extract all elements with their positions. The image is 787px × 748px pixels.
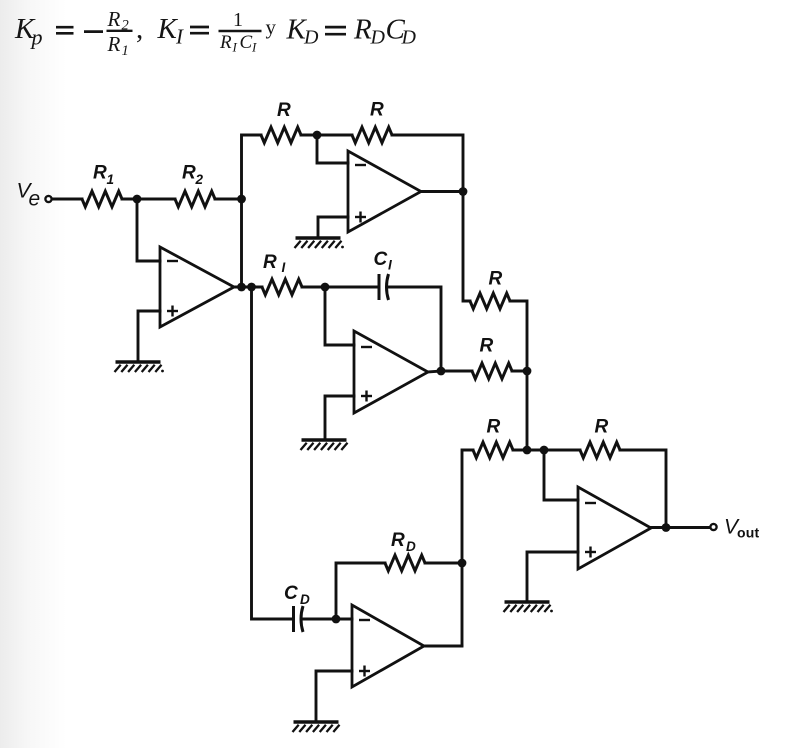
wire CI to op3 output rail	[388, 287, 441, 371]
svg-text:R: R	[107, 32, 121, 56]
op-amp U2 (unity inverter)	[348, 151, 421, 232]
wire RI to CI	[302, 286, 379, 289]
node Ve input terminal	[17, 180, 52, 211]
wire R1 to R2	[122, 198, 175, 201]
resistor RD	[385, 530, 425, 571]
svg-text:R: R	[353, 14, 372, 46]
svg-text:2: 2	[195, 172, 204, 187]
wire op1 output	[234, 286, 262, 289]
node junction after RI	[321, 283, 330, 292]
ground op3	[301, 440, 348, 450]
capacitor CI	[374, 249, 393, 300]
wire R1 node down to op1 inverting input	[137, 199, 160, 261]
resistor R (P feedback)	[352, 100, 392, 143]
wire vertical rail x462 (D output up to summing)	[462, 450, 473, 645]
svg-text:e: e	[29, 188, 41, 211]
svg-text:R: R	[182, 163, 196, 184]
formula Kp = -R2/R1	[14, 7, 143, 59]
svg-text:R: R	[480, 336, 494, 357]
resistor R (P to summing)	[470, 269, 510, 309]
svg-text:1: 1	[107, 172, 115, 187]
op-amp U3 (integrator)	[354, 331, 428, 413]
svg-text:R: R	[277, 100, 291, 121]
wire R to rail	[512, 370, 527, 373]
wire op5 non-inverting input to ground	[527, 552, 578, 600]
svg-text:C: C	[284, 583, 298, 604]
svg-text:1: 1	[122, 43, 129, 59]
svg-text:C: C	[374, 249, 388, 270]
svg-text:C: C	[240, 32, 253, 53]
resistor R (P input)	[261, 100, 301, 143]
ground op5	[504, 602, 553, 612]
wire summing rail right top	[510, 301, 527, 450]
formula KD = RD CD	[286, 14, 417, 49]
node summing junction rail	[523, 446, 532, 455]
svg-text:D: D	[300, 592, 310, 607]
wire summing node down to op5 inverting input	[544, 450, 578, 500]
node op2 output junction	[459, 187, 468, 196]
node top junction	[313, 131, 322, 140]
resistor R (summing feedback)	[580, 417, 620, 458]
svg-text:,: ,	[136, 13, 143, 45]
wire vertical rail x241 output node up to top branch	[242, 135, 262, 287]
svg-text:R: R	[489, 269, 503, 290]
op-amp U1 (proportional)	[160, 247, 234, 327]
wire RD to rail	[425, 562, 462, 565]
wire op2 non-inverting input to ground	[318, 217, 348, 236]
svg-text:p: p	[30, 25, 43, 50]
svg-text:I: I	[282, 260, 286, 275]
resistor R1	[82, 163, 122, 207]
wire summing node horizontal	[513, 449, 580, 452]
node junction after R1	[133, 195, 142, 204]
node op3 output junction	[437, 367, 446, 376]
wire op3 output	[428, 371, 441, 372]
wire op5 output to Vout	[651, 526, 710, 529]
ground op2	[295, 238, 344, 248]
wire op4 output	[424, 645, 462, 648]
svg-text:I: I	[251, 40, 257, 55]
wire op1 non-inverting input to ground	[138, 311, 160, 360]
node Vout terminal	[710, 516, 759, 541]
wire op4 non-inverting input to ground	[316, 671, 352, 720]
node rail junction mid	[523, 367, 532, 376]
resistor R2	[175, 163, 215, 207]
wire top feedback to op2 output	[392, 135, 463, 192]
svg-text:out: out	[737, 525, 760, 541]
node branch junction B	[247, 283, 256, 292]
resistor R (D to summing)	[473, 417, 513, 458]
op-amp U5 (summing)	[578, 487, 651, 569]
svg-text:R: R	[107, 7, 121, 31]
op-amp U4 (differentiator)	[352, 605, 424, 687]
svg-text:I: I	[232, 40, 238, 55]
wire op3 output to summing R	[441, 370, 472, 373]
svg-text:R: R	[391, 530, 405, 551]
svg-text:R: R	[370, 100, 384, 121]
wire RI junction down to op3 inverting input	[325, 287, 354, 345]
svg-text:I: I	[175, 24, 184, 48]
svg-text:D: D	[406, 539, 416, 554]
wire feedback R to op5 output	[620, 450, 666, 527]
node RD output junction	[458, 559, 467, 568]
ground op1	[115, 362, 164, 372]
formula KI = 1/(RI CI)	[157, 9, 277, 55]
ground op4	[293, 722, 340, 732]
svg-text:D: D	[303, 27, 319, 49]
svg-text:R: R	[93, 163, 107, 184]
resistor RI	[262, 252, 302, 295]
svg-text:I: I	[388, 258, 392, 273]
wire op2 output	[421, 190, 463, 193]
svg-text:y: y	[266, 15, 277, 39]
svg-text:R: R	[219, 32, 232, 53]
wire CD to op4 inverting input	[303, 618, 352, 621]
svg-text:D: D	[401, 27, 417, 49]
svg-text:1: 1	[233, 9, 243, 31]
wire R2 to rail junction	[215, 198, 242, 201]
wire between top resistors	[301, 134, 352, 137]
node junction after CD	[332, 615, 341, 624]
wire op3 non-inverting input to ground	[325, 396, 354, 438]
wire top junction down to op2 inverting input	[317, 135, 348, 163]
wire op2 output down to summing R	[463, 192, 470, 302]
svg-text:D: D	[370, 27, 386, 49]
wire CD junction up to RD	[336, 563, 385, 619]
node op1 output junction A	[237, 283, 246, 292]
wire Ve to R1	[52, 198, 82, 201]
wire branch node down to CD	[252, 287, 294, 619]
node junction after R2	[237, 195, 246, 204]
capacitor CD	[284, 583, 310, 632]
node op5 output junction	[662, 523, 671, 532]
svg-text:R: R	[487, 417, 501, 438]
resistor R (I to summing)	[472, 336, 512, 379]
node summing junction inv	[540, 446, 549, 455]
svg-text:R: R	[595, 417, 609, 438]
svg-text:R: R	[263, 252, 277, 273]
